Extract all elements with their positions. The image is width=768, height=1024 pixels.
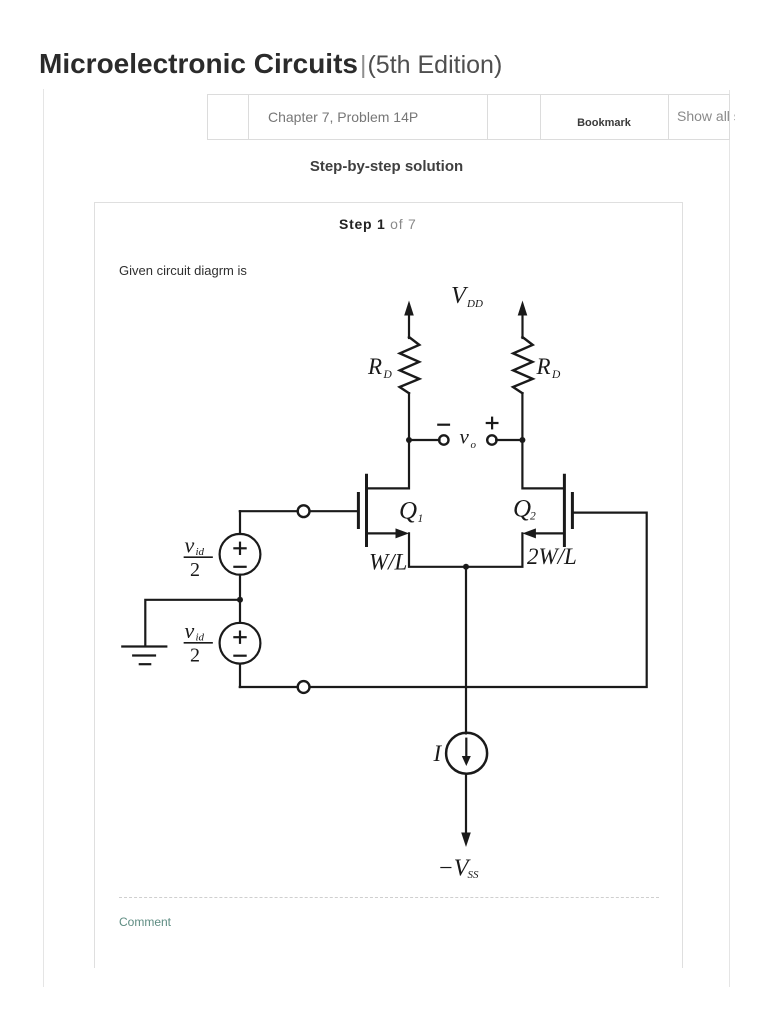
svg-text:−V: −V — [438, 855, 471, 881]
toolbar: bookmark — [540, 117, 668, 129]
label Q1 — [399, 497, 423, 525]
wire: left junction to minus terminal — [409, 439, 440, 441]
content column left border — [43, 89, 44, 987]
toolbar: show all steps (clipped) — [677, 108, 735, 124]
svg-text:Q: Q — [399, 497, 417, 524]
label VDD — [451, 282, 483, 310]
toolbar: chapter text — [268, 109, 418, 125]
label -VSS — [438, 855, 480, 881]
svg-text:DD: DD — [466, 298, 483, 310]
wire: between sources with mid junction — [239, 575, 241, 623]
book title — [39, 50, 502, 78]
label Q2 — [513, 495, 536, 522]
wire: input circle to Q1 gate — [311, 510, 359, 512]
toolbar dividers — [248, 95, 249, 139]
label vid/2 top — [185, 533, 205, 582]
wire: bottom input circle to source stack — [240, 686, 297, 688]
svg-text:1: 1 — [418, 513, 424, 525]
svg-text:2: 2 — [190, 645, 200, 667]
resistor RD right — [513, 337, 533, 393]
svg-text:id: id — [196, 632, 205, 644]
svg-text:R: R — [536, 354, 551, 379]
wire: plus terminal to right junction — [496, 439, 522, 441]
svg-text:2W/L: 2W/L — [527, 544, 577, 569]
wire: bottom source to bottom rail — [239, 664, 241, 687]
wire: Q1 source down to common rail — [409, 533, 522, 566]
plus sign — [487, 418, 498, 429]
svg-text:id: id — [196, 546, 205, 558]
wire: junction to ground — [145, 600, 240, 647]
wire: right junction down to Q2 drain — [522, 440, 564, 488]
Q2 source lead with arrow — [522, 528, 564, 538]
toolbar outer box — [207, 94, 730, 140]
svg-text:D: D — [383, 369, 393, 381]
input terminal circle top — [298, 505, 310, 517]
step-by-step heading — [43, 158, 730, 175]
transistor Q1 gate bar — [357, 494, 360, 528]
svg-text:R: R — [367, 354, 382, 379]
terminal circle minus — [439, 435, 448, 444]
transistor Q2 channel bar — [563, 475, 566, 545]
wire: top gate wire corner down to vid source 1 — [239, 511, 241, 534]
voltage source vid/2 bottom — [220, 623, 261, 664]
svg-text:2: 2 — [190, 559, 200, 581]
wire: left resistor to drain node — [408, 393, 410, 440]
label RD right — [536, 354, 562, 381]
node: mid junction — [237, 597, 243, 603]
wire: current source to -VSS arrow — [461, 774, 471, 847]
wire: Q1 gate lead (left of input circle) — [240, 510, 297, 512]
given text — [119, 263, 247, 278]
dashed separator — [119, 897, 659, 898]
svg-text:I: I — [433, 741, 443, 766]
svg-text:Q: Q — [513, 495, 531, 522]
svg-text:o: o — [471, 439, 477, 451]
label vo — [460, 425, 477, 452]
Q1 source lead with arrow — [367, 528, 410, 538]
transistor Q2 gate bar — [571, 494, 574, 528]
svg-text:v: v — [185, 618, 195, 643]
wire: Q2 gate lead to right loop — [311, 513, 647, 687]
voltage source vid/2 top — [220, 534, 261, 575]
current source I — [446, 733, 487, 774]
label RD left — [367, 354, 393, 381]
ground — [122, 647, 166, 665]
transistor Q1 channel bar — [365, 475, 368, 545]
wire: right resistor to drain node — [521, 393, 523, 440]
svg-text:W/L: W/L — [369, 549, 407, 574]
terminal circle plus — [487, 435, 496, 444]
node: common source junction — [463, 564, 469, 570]
svg-text:v: v — [460, 425, 470, 449]
svg-text:D: D — [551, 369, 561, 381]
label vid/2 bottom — [185, 618, 205, 667]
comment link — [119, 915, 171, 929]
resistor RD left — [400, 337, 420, 393]
svg-text:SS: SS — [468, 869, 480, 881]
svg-text:2: 2 — [530, 511, 536, 523]
wire: left junction down to Q1 drain — [367, 440, 410, 488]
VDD arrow left — [404, 301, 414, 339]
step header — [339, 216, 417, 232]
node: right drain junction — [519, 437, 525, 443]
svg-text:v: v — [185, 533, 195, 558]
node: left drain junction — [406, 437, 412, 443]
input terminal circle bottom — [298, 681, 310, 693]
VDD arrow right — [518, 301, 528, 339]
minus sign — [438, 424, 449, 426]
wire: tail down to current source — [465, 567, 467, 734]
content column right border — [729, 90, 730, 98]
solution box borders — [94, 202, 683, 203]
